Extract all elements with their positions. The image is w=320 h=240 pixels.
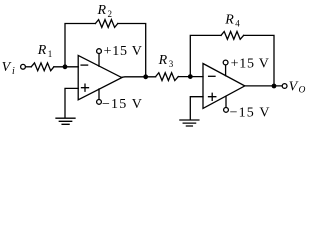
svg-text:R: R	[158, 53, 168, 68]
svg-text:i: i	[12, 66, 15, 77]
svg-text:R: R	[224, 13, 234, 28]
svg-text:2: 2	[108, 9, 113, 19]
svg-text:R: R	[97, 3, 107, 18]
svg-text:1: 1	[48, 49, 53, 59]
svg-text:3: 3	[169, 59, 174, 69]
svg-text:4: 4	[235, 19, 240, 29]
svg-text:−15 V: −15 V	[102, 97, 143, 112]
svg-text:O: O	[299, 85, 306, 95]
svg-text:R: R	[37, 43, 47, 58]
svg-text:+15 V: +15 V	[231, 57, 270, 72]
svg-text:−15 V: −15 V	[230, 105, 271, 120]
svg-text:V: V	[289, 79, 299, 94]
svg-text:+15 V: +15 V	[104, 44, 143, 59]
svg-text:V: V	[2, 60, 12, 75]
